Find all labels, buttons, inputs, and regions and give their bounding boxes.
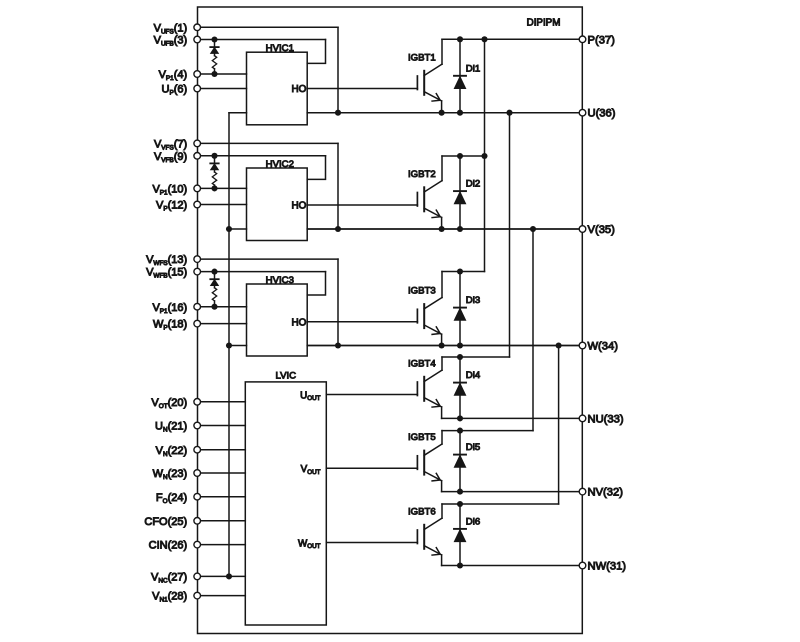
pin terminal VP1(4) [194, 71, 201, 78]
package outline (DIPIPM module border) [198, 7, 583, 634]
svg-text:IGBT6: IGBT6 [408, 506, 436, 517]
wire IGBT6 collector bus [442, 503, 559, 505]
node Di4 anode junction [457, 415, 463, 421]
pin terminal V(35) [579, 226, 586, 233]
svg-text:HVIC2: HVIC2 [266, 159, 294, 170]
wire VWFS(13) vertical drop to W rail [337, 259, 339, 345]
pin terminal NW(31) [579, 562, 586, 569]
diode Di1 freewheel vertical lead [459, 39, 461, 112]
diode Di5 cathode bar [454, 454, 466, 456]
svg-text:VWFB(15): VWFB(15) [146, 267, 187, 280]
svg-text:NV(32): NV(32) [588, 487, 624, 499]
wire resistor R1 to VP1 rail [214, 69, 216, 74]
wire U feed vertical to IGBT4 collector [509, 113, 511, 357]
svg-text:HO: HO [291, 317, 306, 328]
diode Di2 triangle (pointing up) [454, 192, 466, 204]
diode D1 cathode bar [210, 46, 218, 48]
wire VP(12) lead to HVIC2 [197, 204, 246, 206]
wire WN(23) lead to LVIC [197, 472, 245, 474]
node P feed top junction [481, 36, 487, 42]
wire VP1(10) lead to HVIC2 [197, 187, 246, 189]
svg-text:Di2: Di2 [466, 179, 480, 190]
pin terminal W(34) [579, 342, 586, 349]
node VNC common junction [226, 573, 232, 579]
node bootstrap R1 bottom junction [211, 71, 217, 77]
resistor R1 bootstrap zigzag [212, 56, 216, 69]
diode D3 cathode bar [210, 278, 218, 280]
wire VUFS(1) lead to node over HVIC1 [197, 26, 338, 28]
node bootstrap D3 top junction [211, 269, 217, 275]
svg-text:NW(31): NW(31) [588, 561, 627, 573]
pin terminal U(36) [579, 109, 586, 116]
wire VVFB(9) lead [197, 155, 325, 157]
wire IGBT1 emitter vertical to rail [441, 101, 443, 113]
node bootstrap R2 bottom junction [211, 185, 217, 191]
diode Di2 freewheel vertical lead [459, 156, 461, 229]
node Di3 cathode junction [457, 268, 463, 274]
wire CFO(25) lead to LVIC [197, 520, 245, 522]
svg-text:VWFS(13): VWFS(13) [146, 254, 187, 267]
transistor IGBT3 gate bar [416, 309, 418, 323]
svg-text:U(36): U(36) [588, 108, 616, 120]
diode Di6 freewheel vertical lead [459, 504, 461, 566]
diode Di3 triangle (pointing up) [454, 308, 466, 320]
svg-text:LVIC: LVIC [275, 371, 296, 382]
transistor IGBT5 collector diagonal [424, 444, 442, 455]
wire VVFS(7) lead [197, 142, 338, 144]
wire IGBT3 collector bus [442, 271, 485, 273]
wire VN1(28) lead to LVIC [197, 595, 245, 597]
pin terminal VN1(28) [194, 592, 201, 599]
node V feed junction [530, 226, 536, 232]
pin terminal VVFS(7) [194, 140, 201, 147]
node Di6 cathode junction [457, 501, 463, 507]
transistor IGBT2 gate bar [416, 193, 418, 207]
op-amp block HVIC1 body [247, 52, 308, 125]
wire VNC(27) lead to LVIC [197, 575, 245, 577]
pin terminal FO(24) [194, 493, 201, 500]
diode Di1 triangle (pointing up) [454, 76, 466, 88]
diode Di4 cathode bar [454, 382, 466, 384]
transistor IGBT6 gate bar [416, 530, 418, 544]
wire HVIC3 VS line to rail [307, 345, 582, 347]
wire IGBT4 collector vertical [441, 357, 443, 370]
svg-text:VN(22): VN(22) [156, 445, 188, 458]
op-amp block LVIC body [245, 382, 326, 625]
transistor IGBT4 collector diagonal [424, 370, 442, 381]
diode D2 to resistor lead [214, 170, 216, 172]
svg-text:IGBT1: IGBT1 [408, 52, 436, 63]
transistor IGBT3 collector diagonal [424, 298, 442, 309]
pin terminal VUFS(1) [194, 24, 201, 31]
node bootstrap D1 top junction [211, 36, 217, 42]
wire NW rail [442, 565, 583, 567]
wire CIN(26) lead to LVIC [197, 544, 245, 546]
node Di1 cathode junction [457, 36, 463, 42]
pin terminal P(37) [579, 36, 586, 43]
node IGBT2 emitter junction [439, 226, 445, 232]
transistor IGBT5 body bar [423, 451, 425, 475]
node P feed to IGBT2 junction [481, 153, 487, 159]
transistor IGBT3 body bar [423, 304, 425, 328]
wire U output rail [307, 112, 582, 114]
pin terminal CFO(25) [194, 518, 201, 525]
op-amp block HVIC3 body [247, 284, 308, 356]
pin terminal NV(32) [579, 488, 586, 495]
wire HVIC1 COM stub [229, 112, 247, 114]
diode Di2 cathode bar [454, 190, 466, 192]
svg-text:DIPIPM: DIPIPM [527, 17, 561, 28]
wire IGBT3 emitter vertical to rail [441, 334, 443, 345]
wire IGBT4 collector bus [442, 356, 510, 358]
wire LVIC WOUT output to IGBT gate [326, 542, 417, 544]
diode D3 triangle [211, 280, 219, 286]
wire V output rail [307, 228, 582, 230]
wire VWFS(13) lead [197, 258, 338, 260]
pin terminal NU(33) [579, 415, 586, 422]
svg-text:CIN(26): CIN(26) [149, 540, 188, 552]
svg-text:VNC(27): VNC(27) [151, 572, 187, 585]
svg-text:VP(12): VP(12) [156, 200, 187, 213]
svg-text:VP1(16): VP1(16) [152, 302, 187, 315]
wire VUFB(3) staircase into HVIC1 VB [307, 40, 325, 64]
transistor IGBT2 body bar [423, 187, 425, 211]
diode Di4 freewheel vertical lead [459, 357, 461, 418]
svg-text:WN(23): WN(23) [153, 468, 188, 481]
svg-text:Di3: Di3 [466, 295, 480, 306]
resistor R3 bootstrap zigzag [212, 288, 216, 301]
node bootstrap D2 top junction [211, 153, 217, 159]
transistor IGBT3 emitter diagonal [424, 325, 441, 334]
resistor R2 bootstrap zigzag [212, 172, 216, 185]
wire VWFB(15) staircase into HVIC3 VB [307, 272, 325, 295]
diode Di5 triangle (pointing up) [454, 455, 466, 467]
wire V feed vertical to IGBT5 collector [532, 229, 534, 431]
svg-text:Di1: Di1 [466, 63, 480, 74]
transistor IGBT1 collector diagonal [424, 64, 442, 75]
transistor IGBT4 emitter diagonal [424, 398, 441, 407]
node IGBT1 emitter junction [439, 110, 445, 116]
diode Di5 freewheel vertical lead [459, 431, 461, 492]
transistor IGBT2 collector diagonal [424, 181, 442, 192]
diode D3 to resistor lead [214, 286, 216, 288]
wire IGBT2 collector vertical [441, 156, 443, 181]
diode Di6 triangle (pointing up) [454, 530, 466, 542]
node IGBT3 emitter junction [439, 342, 445, 348]
wire VOT(20) lead to LVIC [197, 401, 245, 403]
wire IGBT2 emitter vertical to rail [441, 217, 443, 229]
svg-text:HVIC1: HVIC1 [266, 43, 294, 54]
wire VNC common vertical bus [228, 113, 230, 577]
node bootstrap R3 bottom junction [211, 304, 217, 310]
node Di5 cathode junction [457, 428, 463, 434]
pin terminal VWFS(13) [194, 256, 201, 263]
svg-text:UP(6): UP(6) [162, 84, 188, 97]
svg-text:Di4: Di4 [466, 370, 481, 381]
wire IGBT6 collector vertical [441, 504, 443, 518]
wire FO(24) lead to LVIC [197, 496, 245, 498]
wire W feed vertical to IGBT6 collector [558, 346, 560, 505]
wire W output rail [307, 345, 582, 347]
wire VN(22) lead to LVIC [197, 449, 245, 451]
wire HVIC3 COM stub [229, 345, 247, 347]
wire WP(18) lead to HVIC3 [197, 323, 246, 325]
node Di4 cathode junction [457, 354, 463, 360]
diode D2 bootstrap (anode down, cathode up) lead [214, 156, 216, 164]
wire HVIC1 HO output to IGBT gate [307, 88, 417, 90]
transistor IGBT1 emitter diagonal [424, 92, 441, 101]
wire resistor R3 to VP1 rail [214, 301, 216, 307]
svg-text:VN1(28): VN1(28) [152, 591, 187, 604]
diode D2 triangle [211, 164, 219, 170]
wire IGBT1 collector vertical [441, 39, 443, 64]
svg-text:NU(33): NU(33) [588, 413, 624, 425]
pin terminal UP(6) [194, 85, 201, 92]
pin terminal VP(12) [194, 201, 201, 208]
transistor IGBT1 body bar [423, 71, 425, 95]
svg-text:FO(24): FO(24) [156, 492, 187, 505]
svg-text:VOT(20): VOT(20) [151, 397, 187, 410]
svg-text:CFO(25): CFO(25) [144, 516, 187, 528]
svg-text:UN(21): UN(21) [155, 421, 187, 434]
pin terminal VNC(27) [194, 573, 201, 580]
wire IGBT5 emitter vertical to rail [441, 481, 443, 492]
pin terminal VOT(20) [194, 399, 201, 406]
wire NV rail [442, 491, 583, 493]
pin terminal VUFB(3) [194, 36, 201, 43]
transistor IGBT6 collector diagonal [424, 518, 442, 529]
wire P feed vertical to IGBT2/IGBT3 collectors [484, 39, 486, 271]
wire NU rail [442, 417, 583, 419]
wire HVIC2 HO output to IGBT gate [307, 204, 417, 206]
svg-text:W(34): W(34) [588, 341, 619, 353]
node VWFS-W junction [335, 342, 341, 348]
pin terminal WP(18) [194, 320, 201, 327]
wire UN(21) lead to LVIC [197, 425, 245, 427]
node VUFS-U junction [335, 110, 341, 116]
svg-text:IGBT2: IGBT2 [408, 169, 436, 180]
pin terminal VP1(10) [194, 185, 201, 192]
wire VWFB(15) lead [197, 271, 325, 273]
wire HVIC2 VS line to rail [307, 228, 582, 230]
pin terminal VWFB(15) [194, 268, 201, 275]
svg-text:VP1(4): VP1(4) [159, 69, 188, 82]
wire VVFS(7) vertical drop to V rail [337, 143, 339, 229]
node Di1 anode junction [457, 110, 463, 116]
svg-text:Di6: Di6 [466, 516, 480, 527]
transistor IGBT4 body bar [423, 377, 425, 401]
svg-text:V(35): V(35) [588, 224, 616, 236]
svg-text:P(37): P(37) [588, 34, 616, 46]
diode D2 cathode bar [210, 162, 218, 164]
transistor IGBT2 emitter diagonal [424, 208, 441, 217]
diode Di6 cathode bar [454, 528, 466, 530]
wire IGBT4 emitter vertical to rail [441, 407, 443, 419]
svg-text:WP(18): WP(18) [153, 319, 187, 332]
wire HVIC1 VS line to rail [307, 112, 582, 114]
wire LVIC VOUT output to IGBT gate [326, 467, 417, 469]
node Di2 cathode junction [457, 153, 463, 159]
svg-text:HO: HO [291, 201, 306, 212]
svg-text:Di5: Di5 [466, 442, 480, 453]
wire VUFS(1) vertical drop to U rail [337, 27, 339, 112]
pin terminal CIN(26) [194, 541, 201, 548]
transistor IGBT4 gate bar [416, 382, 418, 396]
wire VP1(4) lead to HVIC1 [197, 73, 246, 75]
svg-text:HO: HO [291, 84, 306, 95]
transistor IGBT6 body bar [423, 525, 425, 549]
transistor IGBT5 emitter arrowhead [432, 473, 440, 481]
node HVIC2 COM junction [226, 226, 232, 232]
diode D3 bootstrap (anode down, cathode up) lead [214, 272, 216, 280]
node Di3 anode junction [457, 342, 463, 348]
svg-text:HVIC3: HVIC3 [266, 275, 294, 286]
transistor IGBT2 emitter arrowhead [432, 210, 440, 218]
wire IGBT5 collector bus [442, 430, 533, 432]
wire UP(6) lead to HVIC1 [197, 88, 246, 90]
diode Di4 triangle (pointing up) [454, 383, 466, 395]
pin terminal VN(22) [194, 446, 201, 453]
transistor IGBT5 emitter diagonal [424, 472, 441, 481]
wire VVFB(9) staircase into HVIC2 VB [307, 156, 325, 180]
transistor IGBT1 emitter arrowhead [432, 94, 440, 102]
svg-text:IGBT3: IGBT3 [408, 286, 436, 297]
diode D1 to resistor lead [214, 54, 216, 56]
wire IGBT2 collector bus [442, 155, 485, 157]
wire IGBT6 emitter vertical to rail [441, 555, 443, 566]
wire IGBT3 collector vertical [441, 272, 443, 298]
node U feed junction [506, 110, 512, 116]
svg-text:IGBT4: IGBT4 [408, 358, 436, 369]
transistor IGBT6 emitter diagonal [424, 546, 441, 555]
node HVIC3 COM junction [226, 342, 232, 348]
node Di5 anode junction [457, 489, 463, 495]
wire IGBT5 collector vertical [441, 431, 443, 444]
wire P bus rail [442, 38, 583, 40]
svg-text:IGBT5: IGBT5 [408, 432, 436, 443]
diode Di1 cathode bar [454, 75, 466, 77]
diode D1 bootstrap (anode down, cathode up) lead [214, 40, 216, 48]
pin terminal WN(23) [194, 470, 201, 477]
transistor IGBT4 emitter arrowhead [432, 400, 440, 408]
pin terminal VP1(16) [194, 303, 201, 310]
wire VP1(16) lead to HVIC3 [197, 306, 246, 308]
diode Di3 cathode bar [454, 307, 466, 309]
wire resistor R2 to VP1 rail [214, 185, 216, 188]
wire HVIC2 COM stub [229, 228, 247, 230]
pin terminal UN(21) [194, 422, 201, 429]
wire LVIC UOUT output to IGBT gate [326, 394, 417, 396]
node VVFS-V junction [335, 226, 341, 232]
node W feed junction [556, 342, 562, 348]
transistor IGBT5 gate bar [416, 456, 418, 470]
transistor IGBT1 gate bar [416, 76, 418, 90]
node Di2 anode junction [457, 226, 463, 232]
wire VUFB(3) lead [197, 39, 325, 41]
node Di6 anode junction [457, 562, 463, 568]
transistor IGBT3 emitter arrowhead [432, 327, 440, 335]
transistor IGBT6 emitter arrowhead [432, 548, 440, 556]
wire HVIC3 HO output to IGBT gate [307, 321, 417, 323]
svg-text:VP1(10): VP1(10) [152, 184, 187, 197]
pin terminal VVFB(9) [194, 153, 201, 160]
diode Di3 freewheel vertical lead [459, 272, 461, 346]
diode D1 triangle [211, 47, 219, 53]
op-amp block HVIC2 body [247, 168, 308, 241]
